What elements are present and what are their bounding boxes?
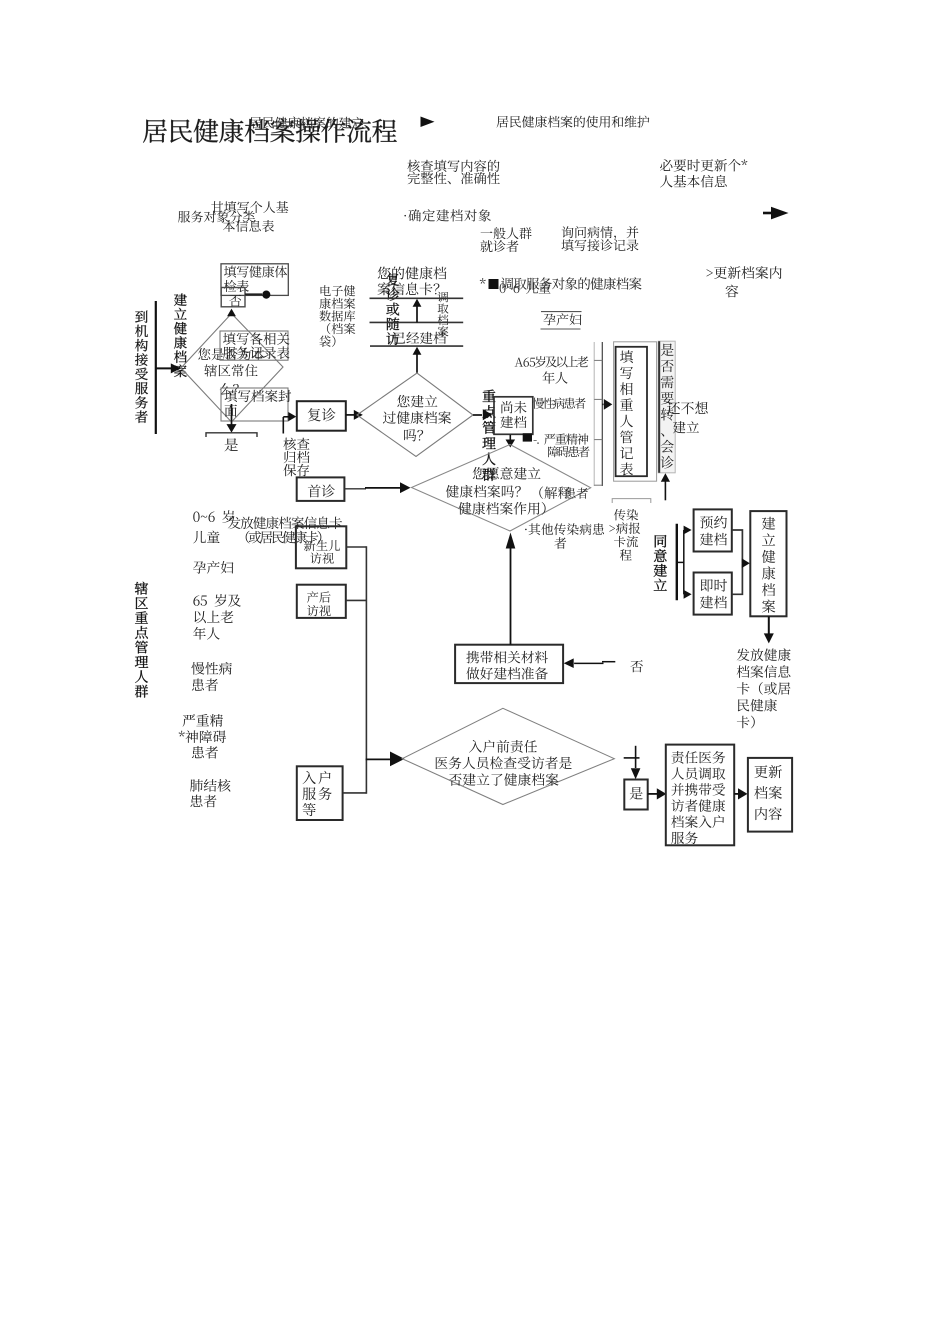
box text 即时 [701,579,727,592]
ladder rung4 [594,484,602,486]
box 是否需要转会诊 [658,341,675,473]
box outer 填写相重人管记表 [614,342,657,481]
box text 等 [303,803,316,816]
arrowhead into 责任医务 [657,788,667,799]
left edge 是否需要转会诊 [658,341,660,473]
arrowhead down 发放 [764,633,774,643]
wire 首诊 b [365,487,400,489]
overlap 还不想 [667,401,708,414]
stem down to 是2 [635,746,637,768]
arrowhead into d2 [354,410,363,420]
wire 责任医务 out [734,793,741,795]
box text 建档 [500,416,526,428]
note 传染 [614,509,638,521]
wire ladder to box [602,403,603,405]
wire 首诊 a [344,488,366,490]
box 入户服务等 [297,766,343,820]
rule above 孕产妇 [541,311,582,313]
branch spine [676,524,678,601]
stem down to 是 [231,404,233,425]
note 归档 [284,451,310,463]
box text 检表 [224,280,249,292]
hline1 [370,297,464,299]
q 您的健康档 [378,266,447,279]
arrowhead into d3 [506,440,516,448]
branch tick [677,561,684,563]
box 新生儿访视 [296,526,346,568]
box 否 [221,288,245,307]
box inner 填写相重人管记表 [616,347,647,476]
stem d1 to 否 [231,313,233,316]
box 填写档案封面 [221,388,288,421]
branch vertical [683,530,685,594]
heading 居民健康档案的使用和维护 [497,116,650,128]
cat 岁及以上老 [535,356,588,367]
note line1 [407,160,499,172]
note 一般人群 [481,227,532,239]
box text 并携带受 [671,783,725,796]
cat 0~6岁 [193,510,234,523]
note 或居民健康卡 [246,531,322,544]
cat 者 [554,537,566,549]
arrowhead into 预约建档 [684,526,692,535]
wire 否 to dot [245,293,262,295]
ladder rung3 [594,439,602,441]
stem up into 是否需要 [664,479,666,500]
arrowhead up1 [413,299,422,307]
note 服务对象分类 [178,211,255,223]
diamond 您是否为本辖区常住 [181,314,283,423]
box 尚未建档 [494,397,533,435]
vtext 填写相重人管记表 [620,350,633,475]
note 病报 [609,522,640,534]
d3 解释 overlap [539,486,570,499]
q 案信息卡 [377,282,439,295]
vtext 建立健康档案 box [762,517,776,613]
box 即时建档 [694,573,732,615]
big arrowhead into d4 [390,752,405,767]
cat 慢性病 [191,662,231,675]
note 程 [620,549,632,560]
note 卡流 [614,536,638,548]
arrowhead up into 是否需要 [661,473,670,482]
arrowhead into 尚未建档 [483,409,493,420]
box 首诊 [297,477,345,501]
box 复诊 [297,401,346,431]
arrow stem up1 [416,305,418,322]
box text 产后 [307,591,331,602]
vtext 同意建立 [654,535,667,591]
note 保存 [283,464,309,476]
elbow vertical [282,417,284,434]
wire 即时建档 out [732,563,743,594]
note 否2 [630,660,642,672]
cat 肺结核 [190,779,230,792]
box text 填写各相关 [223,332,289,344]
box text 首诊 [308,484,335,497]
box text 复诊 [308,408,336,421]
stem down 发放 [768,616,770,634]
note 本信息表 [223,220,274,232]
box 预约建档 [694,509,732,551]
d2 您建立 [397,395,437,408]
note 电子健 [321,285,356,296]
arrow stem up2 [416,353,418,373]
d4 入户前责任 [469,740,537,753]
vtext 到机构接受服务者 [135,311,148,423]
box text 人员调取 [671,767,725,779]
note 是 [225,438,238,451]
note 必要时更新个 [660,159,747,172]
box text 预约 [700,516,727,529]
box text 新生儿 [304,540,340,551]
box text 服务 [303,787,332,800]
note 卡或居 [737,682,791,695]
ladder right line [601,342,603,486]
d3 您愿意建立 [473,467,541,480]
note 民健康 [738,699,777,712]
note 袋 [320,335,336,346]
cat 严重精 [183,714,223,727]
partial box 传染病报卡 [612,499,651,503]
stub 产后访视 [346,599,367,601]
arrowhead up2 [413,347,422,355]
wire 是2 out [648,793,657,795]
tick d4 out [624,757,640,759]
box text 填写档案封 [225,390,292,403]
note 调取服务对象的健康档案 [501,277,642,290]
note 询问病情并 [562,226,639,239]
d4 否建立了健康档案 [449,773,559,786]
box 填写健康体检表 [221,264,288,296]
note 更新档案内 [706,266,781,279]
wire into d4 [366,758,390,760]
big arrow right [763,207,789,220]
overlap 0~6 儿童 [500,282,551,294]
black square marker [523,433,532,441]
box text 更新 [754,765,782,778]
box text 访视2 [307,605,331,616]
cat 年人2 [193,627,220,640]
cat 65岁及 [193,594,241,607]
note 发放健康档案信息卡 [228,516,342,529]
stem 携带 up to d3 [510,548,512,645]
d1 么 [220,383,239,395]
rule below 孕产妇 [541,328,581,330]
arrowhead down to 是 [227,424,237,433]
box text 入户 [303,771,331,784]
vtext 是否需要转会诊 [661,343,674,468]
cat 障碍患者 [548,446,590,457]
stub 新生儿访视 [346,546,366,548]
note 确定建档对象 [404,209,491,221]
note 数据库 [319,310,355,321]
d3 健康档案吗 [446,485,521,498]
box text 责任医务 [671,751,725,764]
hline2 [370,321,464,323]
cat 儿童 [193,531,220,544]
box text 建档3 [700,596,727,609]
box text 做好建档准备 [466,667,547,680]
box 填写各相关服务记录表 [220,331,288,360]
note 填写个人基 [211,201,288,213]
arrowhead into 建立健康档案 [742,558,750,568]
arrowhead into 是2 [631,768,641,779]
cat 以上老 [194,611,233,624]
entry arrowhead [171,363,181,373]
cat 孕产妇2 [193,561,233,574]
note 就诊者 [480,240,518,252]
vtext 复诊或随访 [386,273,399,345]
cat 年人 [542,371,567,383]
stem 尚未建档 to d3 [509,435,511,440]
d2 吗 [404,429,423,441]
box 产后访视 [297,585,346,618]
box text 服务2 [671,831,697,844]
box text 服务记录表 [223,346,290,359]
entry vertical line [155,301,157,434]
cat 严重精神 [534,433,589,444]
box text 档案入户 [671,815,724,828]
cat 神障碍 [179,730,226,743]
title 居民健康档案操作流程 [143,119,397,143]
entry arrow stem [156,367,172,369]
wire 复诊 to d2 [346,414,355,416]
arrowhead into 携带相关材料 [564,658,574,668]
box text 访视 [310,553,334,564]
arrowhead into 更新档案内容 [738,788,748,799]
note 档案信息 [737,665,791,678]
cat 其他传染病患 [525,523,604,535]
note 人基本信息 [660,175,727,188]
stub 入户服务 [343,792,367,794]
collector vertical [365,546,367,793]
diamond 入户前责任 [402,708,614,804]
vtext 调取档案 [438,292,449,337]
d2 过健康档案 [383,411,451,424]
arrowhead into 填写相重人管记表 [604,399,613,410]
arrowhead to 否 [227,309,236,317]
ladder left line [593,342,595,486]
arrowhead into 复诊 [288,412,296,421]
box 建立健康档案 [750,511,786,616]
box text 填写健康体 [224,265,287,277]
note 康档案 [319,298,355,309]
asterisk [480,278,486,284]
cat 患者3 [192,746,218,759]
note line2 [408,172,500,184]
note 填写接诊记录 [562,239,639,251]
note 核查 [283,438,309,450]
box 责任医务人员调取并携带受访者健康档案入户服务 [666,745,734,846]
overlap title 居民健康档案的建立 [250,117,364,129]
overlap 患者 [565,488,588,499]
wire 预约建档 out [732,530,743,563]
box text 尚未 [501,401,526,413]
wire 否 b [602,661,615,663]
cat 患者4 [190,795,216,808]
box text 内容 [755,807,781,820]
diamond 您建立过健康档案吗 [357,373,473,457]
vtext 重点管理人群 [482,390,495,481]
box text 面 [225,405,237,417]
filled square bullet [489,279,499,289]
note 发放健康 [737,648,791,661]
arrowhead 首诊 into d3 [400,482,411,493]
cat 慢性病患者 [532,398,585,409]
wire 否 a [574,662,603,664]
box text 是2 [630,787,643,800]
hline3 [370,345,463,347]
overlap 建立 [673,421,699,433]
ladder rung1 [594,359,602,361]
ladder rung2 [594,398,602,400]
box text 访者健康 [671,799,725,812]
long arrowhead up into d3 [506,533,516,549]
wire d2 to 尚未建档 [473,414,482,416]
box 更新档案内容 [748,758,792,832]
box 是2 [624,780,647,810]
junction dot [262,291,270,299]
note 容 [725,285,738,298]
vtext 辖区重点管理人群 [135,582,148,698]
arrowhead into 即时建档 [684,590,692,599]
elbow horizontal [283,416,289,418]
box 携带相关材料做好建档准备 [455,645,563,683]
bullet triangle top [421,117,435,128]
d1 辖区常住 [204,364,257,376]
box text 否 [229,295,241,307]
box text 建档2 [700,533,727,546]
note 卡2 [737,716,755,729]
是 underline [206,433,257,437]
note 孕产妇 top [543,313,581,325]
box text 档案2 [754,786,782,799]
diamond 您愿意建立健康档案吗 [412,445,591,532]
note 已经建档 [394,332,446,344]
d3 健康档案作用 [458,502,545,515]
cat 患者2 [192,678,218,691]
note 档案 [327,323,355,334]
d1 您是否为本 [198,348,264,360]
cat A65 [515,358,536,367]
vtext 建立健康档案 [174,294,187,378]
box text 携带相关材料 [466,651,548,664]
d4 医务人员检查受访者是 [435,756,571,769]
